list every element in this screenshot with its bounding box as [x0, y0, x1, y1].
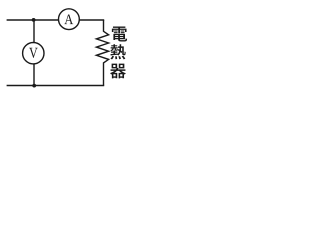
- resistor R1 heater zigzag with right-side wires: [96, 20, 108, 86]
- wire voltmeter branch upper: [33, 20, 35, 43]
- label kanji 器: [110, 64, 126, 79]
- voltmeter label V: [29, 48, 37, 58]
- label kanji 熱: [110, 44, 125, 59]
- wire top horizontal (ammeter to top-right corner): [79, 19, 104, 21]
- node junction dot top: [32, 18, 36, 22]
- wire bottom horizontal: [7, 85, 105, 87]
- voltmeter U1 circle: [23, 43, 44, 64]
- wire top horizontal (left lead to ammeter): [7, 19, 59, 21]
- label kanji 電: [112, 27, 127, 42]
- ammeter U2 circle: [59, 9, 80, 30]
- wire voltmeter branch lower: [33, 63, 35, 85]
- ammeter label A: [64, 15, 73, 25]
- node junction dot bottom: [32, 84, 36, 88]
